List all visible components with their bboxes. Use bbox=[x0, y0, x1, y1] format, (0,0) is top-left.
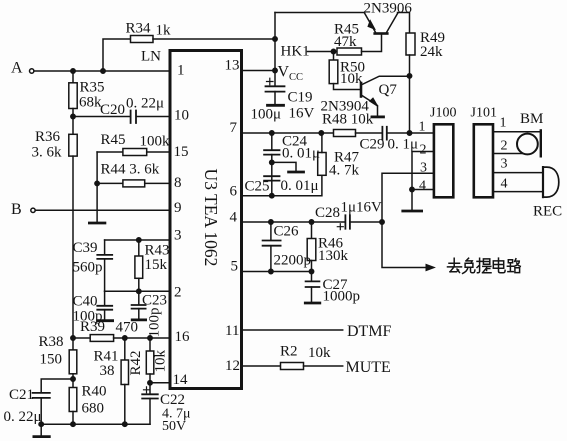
svg-text:9: 9 bbox=[174, 200, 182, 216]
node junction R43 bottom / C23 bbox=[137, 289, 141, 293]
svg-text:C21: C21 bbox=[9, 387, 34, 403]
resistor R50 10k bbox=[333, 52, 335, 61]
svg-text:C26: C26 bbox=[274, 224, 300, 240]
wire pin3 column up to J100 bbox=[382, 173, 434, 222]
ground at C24/C25 node bbox=[289, 171, 304, 174]
wire R45 to 2N3906 base bbox=[362, 35, 382, 52]
svg-text:1000p: 1000p bbox=[323, 289, 361, 305]
wire vertical LN/Vcc column bbox=[274, 13, 276, 87]
resistor R45 100k bbox=[123, 149, 147, 156]
svg-text:R48 10k: R48 10k bbox=[322, 112, 374, 128]
node junction R41 top bbox=[123, 336, 127, 340]
svg-text:2N3906: 2N3906 bbox=[364, 1, 413, 17]
node junction C26 top bbox=[269, 220, 273, 224]
svg-text:2: 2 bbox=[501, 139, 508, 154]
svg-text:7: 7 bbox=[230, 120, 238, 136]
svg-text:680: 680 bbox=[82, 401, 105, 417]
svg-text:150: 150 bbox=[40, 352, 63, 368]
svg-text:MUTE: MUTE bbox=[346, 359, 391, 376]
svg-text:2200p: 2200p bbox=[274, 253, 312, 269]
wire pin 12 to R2 bbox=[242, 365, 281, 367]
node junction C24 top bbox=[270, 131, 274, 135]
capacitor C28 1u16V plates bbox=[345, 215, 350, 228]
capacitor C19 plus sign bbox=[267, 78, 274, 85]
wire J101 pin3 to REC bbox=[493, 172, 543, 174]
svg-text:4: 4 bbox=[501, 177, 508, 192]
ground under C40 bbox=[98, 319, 113, 322]
node junction C26 bottom bbox=[269, 269, 273, 273]
svg-text:10k: 10k bbox=[308, 345, 331, 361]
wire pin 4 row bbox=[242, 221, 346, 223]
svg-text:1μ16V: 1μ16V bbox=[341, 200, 383, 216]
node junction R35-C20-R36 bbox=[71, 114, 75, 118]
svg-text:3. 6k: 3. 6k bbox=[32, 145, 63, 161]
node junction R46 bottom / C27 top bbox=[309, 269, 313, 273]
resistor R49 24k bbox=[406, 33, 415, 55]
wire pin 5 row bbox=[242, 271, 312, 273]
ground at Q7 emitter bbox=[372, 116, 384, 119]
svg-text:2: 2 bbox=[420, 143, 427, 158]
transistor Q7 2N3904 base bar bbox=[360, 83, 363, 97]
transistor Q 2N3906 base bar bbox=[375, 32, 388, 35]
svg-text:11: 11 bbox=[225, 323, 239, 339]
svg-text:5: 5 bbox=[231, 259, 239, 275]
svg-text:R42: R42 bbox=[128, 350, 144, 375]
wire pin 15 left segment bbox=[97, 151, 123, 153]
svg-text:13: 13 bbox=[225, 58, 240, 74]
node junction R38-R40-C21 bbox=[71, 377, 75, 381]
svg-text:J101: J101 bbox=[471, 106, 497, 121]
ground under C23 bbox=[132, 318, 145, 321]
transistor 2N3906 emitter with arrow bbox=[365, 13, 376, 32]
op-amp U3 TEA1062 IC body bbox=[170, 51, 242, 389]
capacitor C20 0.22u plates bbox=[131, 111, 136, 124]
svg-text:16V: 16V bbox=[289, 106, 315, 122]
node junction HK1-R45-R50 bbox=[331, 49, 335, 53]
svg-text:0. 1μ: 0. 1μ bbox=[388, 137, 419, 153]
node junction C25 bottom bbox=[270, 194, 274, 198]
capacitor C22 4.7u 50V plates bbox=[142, 394, 158, 398]
svg-text:100k: 100k bbox=[140, 134, 171, 150]
wire pin 2 bbox=[105, 290, 170, 292]
wire J100 pin4 stub bbox=[412, 189, 434, 191]
node junction J100 pin4-ground column bbox=[410, 187, 414, 191]
svg-text:R34: R34 bbox=[126, 21, 152, 37]
resistor R39 470 bbox=[90, 335, 113, 342]
resistor R44 3.6k bbox=[123, 180, 145, 187]
resistor R41 38 bbox=[124, 338, 126, 360]
wire 2N3906 collector to R49 top bbox=[398, 13, 410, 34]
transistor 2N3906 collector bbox=[387, 13, 398, 32]
svg-text:B: B bbox=[11, 201, 22, 218]
wire pin 13 to Vcc bbox=[242, 70, 276, 72]
wire bottom ground rail bbox=[41, 423, 150, 425]
wire B to pin 9 bbox=[35, 209, 170, 211]
svg-text:14: 14 bbox=[173, 372, 189, 388]
svg-text:50V: 50V bbox=[162, 419, 186, 434]
svg-text:0. 01μ: 0. 01μ bbox=[281, 178, 319, 194]
svg-text:CC: CC bbox=[289, 72, 303, 83]
svg-text:U3 TEA 1062: U3 TEA 1062 bbox=[201, 169, 221, 267]
label chinese qu mianti dianlu (to speakerphone circuit) bbox=[448, 258, 521, 273]
svg-text:C23: C23 bbox=[142, 293, 167, 309]
resistor R35 68k bbox=[72, 71, 74, 83]
wire C24/C25 node to ground stub bbox=[272, 162, 296, 171]
capacitor C28 plus sign bbox=[337, 224, 343, 230]
wire J100 pin2 stub bbox=[412, 152, 434, 190]
svg-text:1k: 1k bbox=[156, 23, 172, 39]
capacitor C27 1000p bbox=[311, 272, 313, 282]
svg-text:470: 470 bbox=[116, 320, 139, 336]
wire J101 pin2 to BM bbox=[493, 153, 522, 155]
resistor R34 1k bbox=[131, 36, 154, 43]
svg-text:15: 15 bbox=[174, 144, 189, 160]
svg-text:R2: R2 bbox=[280, 344, 298, 360]
svg-text:560p: 560p bbox=[73, 260, 103, 276]
wire pin 11 DTMF bbox=[242, 329, 343, 331]
svg-text:C25: C25 bbox=[245, 179, 270, 195]
node junction C29-R49 column bbox=[407, 131, 411, 135]
node junction C28-J100pin3 column bbox=[380, 220, 384, 224]
wire J101 pin1 to BM bbox=[493, 131, 540, 133]
wire pin 8 left segment bbox=[97, 182, 123, 184]
svg-text:V: V bbox=[278, 64, 290, 81]
capacitor C39 560p bbox=[104, 240, 106, 255]
terminal B bbox=[31, 208, 35, 212]
resistor R36 3.6k bbox=[72, 117, 74, 135]
capacitor C19 100u 16V plates bbox=[266, 86, 285, 91]
ground under C19 bbox=[268, 104, 284, 107]
svg-text:BM: BM bbox=[520, 111, 543, 127]
node junction Q7 collector-R49 bbox=[407, 74, 411, 78]
svg-text:2: 2 bbox=[174, 285, 182, 301]
svg-text:47k: 47k bbox=[334, 34, 357, 50]
resistor R38 150 bbox=[72, 338, 74, 350]
svg-text:R36: R36 bbox=[35, 129, 61, 145]
node junction R46 top bbox=[309, 220, 313, 224]
wire R45 to pin 15 bbox=[147, 151, 170, 153]
svg-text:1: 1 bbox=[500, 116, 507, 131]
node Vcc junction bbox=[273, 68, 277, 72]
svg-text:68k: 68k bbox=[79, 95, 102, 111]
capacitor C25 0.01u plates bbox=[264, 176, 279, 180]
svg-text:R38: R38 bbox=[39, 334, 64, 350]
svg-text:C20: C20 bbox=[100, 102, 125, 118]
resistor R48 10k bbox=[334, 130, 356, 137]
wire pin 3 bbox=[105, 239, 170, 241]
wire R39 left stub bbox=[73, 337, 90, 339]
wire R48 to C29 bbox=[356, 132, 383, 134]
svg-text:REC: REC bbox=[533, 204, 562, 220]
svg-text:C19: C19 bbox=[288, 90, 313, 106]
svg-text:0. 01μ: 0. 01μ bbox=[282, 146, 320, 162]
connector J101 body bbox=[474, 124, 493, 197]
wire A to pin 1 bbox=[34, 70, 170, 72]
capacitor C22 plus sign bbox=[144, 387, 150, 393]
svg-text:LN: LN bbox=[141, 49, 161, 65]
svg-text:C28: C28 bbox=[315, 205, 340, 221]
svg-text:0. 22μ: 0. 22μ bbox=[126, 96, 164, 112]
svg-text:C39: C39 bbox=[73, 240, 98, 256]
svg-text:4. 7k: 4. 7k bbox=[329, 163, 360, 179]
wire J100 ground stub bbox=[411, 190, 413, 211]
capacitor C24 0.01u bbox=[271, 133, 273, 150]
wire R34 to LN node bbox=[153, 38, 275, 40]
capacitor C21 0.22u plates bbox=[33, 393, 50, 398]
wire HK1 to R45 bbox=[308, 51, 338, 53]
node junction A-R35 bbox=[71, 69, 75, 73]
node junction R42-C22-pin14 bbox=[148, 381, 152, 385]
wire pin 7 row bbox=[242, 132, 334, 134]
wire R2 to MUTE bbox=[304, 365, 343, 367]
capacitor C29 0.1u plates bbox=[382, 127, 386, 140]
ground under R44 column bbox=[89, 222, 105, 225]
svg-text:R39: R39 bbox=[80, 319, 105, 335]
wire R44 to pin 8 bbox=[145, 182, 170, 184]
svg-text:12: 12 bbox=[225, 358, 240, 374]
svg-text:R40: R40 bbox=[82, 384, 107, 400]
node junction rail-C21 bbox=[39, 422, 43, 426]
svg-text:3: 3 bbox=[174, 228, 182, 244]
svg-text:C29: C29 bbox=[360, 137, 385, 153]
node junction rail-R41 bbox=[123, 422, 127, 426]
svg-text:10k: 10k bbox=[153, 350, 169, 373]
wire C20 left segment bbox=[73, 116, 130, 118]
svg-text:10: 10 bbox=[174, 108, 189, 124]
ground under J100 bbox=[403, 210, 422, 213]
wire R45/R44 ground column bbox=[96, 152, 98, 222]
connector J100 body bbox=[434, 124, 453, 197]
wire R34 branch vertical bbox=[103, 39, 131, 71]
wire J101 pin4 to REC bbox=[493, 191, 543, 193]
svg-text:4: 4 bbox=[419, 179, 426, 194]
svg-text:DTMF: DTMF bbox=[347, 323, 392, 340]
svg-text:100μ: 100μ bbox=[251, 107, 282, 123]
wire C20 to pin 10 bbox=[136, 116, 170, 118]
node junction rail-R39 bbox=[71, 336, 75, 340]
resistor R45 47k bbox=[337, 48, 362, 55]
capacitor C40 100p bbox=[104, 291, 106, 305]
node junction rail-R40 bbox=[71, 422, 75, 426]
svg-text:3: 3 bbox=[501, 157, 508, 172]
wire C21 branch bbox=[41, 379, 73, 393]
svg-text:Q7: Q7 bbox=[379, 82, 398, 98]
svg-text:38: 38 bbox=[100, 363, 115, 379]
wire R50 to Q7 base bbox=[334, 84, 361, 90]
svg-text:J100: J100 bbox=[430, 106, 456, 121]
wire C19 bottom stub bbox=[274, 92, 276, 105]
resistor R42 10k bbox=[149, 338, 151, 351]
svg-text:100p: 100p bbox=[147, 308, 163, 338]
transistor Q7 emitter with arrow bbox=[362, 96, 378, 117]
resistor R46 130k bbox=[311, 222, 313, 239]
wire left rail R36 down to R39 level bbox=[72, 156, 74, 338]
svg-text:3: 3 bbox=[420, 161, 427, 176]
ground under C27 bbox=[305, 302, 320, 305]
capacitor C23 100p bbox=[138, 291, 140, 304]
wire speakerphone branch with arrow bbox=[382, 222, 429, 268]
node junction R47 top bbox=[319, 131, 323, 135]
svg-text:1: 1 bbox=[419, 120, 426, 135]
receiver REC dome bbox=[542, 167, 544, 197]
wire top rail to 2N3906 emitter bbox=[275, 12, 365, 14]
svg-text:24k: 24k bbox=[420, 44, 443, 60]
wire C28 to J100 pin3 column bbox=[350, 221, 382, 223]
resistor R40 680 bbox=[72, 379, 74, 388]
svg-text:R45: R45 bbox=[101, 132, 126, 148]
svg-text:R35: R35 bbox=[80, 80, 105, 96]
wire pin 16 bbox=[114, 337, 170, 339]
ground bottom-left bbox=[40, 424, 42, 436]
node junction C24-C25 bbox=[270, 160, 274, 164]
node junction R43 top bbox=[137, 238, 141, 242]
wire R47 top to pin7 row bbox=[321, 133, 323, 153]
resistor R2 10k bbox=[281, 363, 304, 370]
svg-text:4: 4 bbox=[230, 210, 238, 226]
microphone BM circle bbox=[517, 134, 538, 155]
wire R49 to Q7 collector node bbox=[409, 55, 411, 133]
node junction A-R34 branch bbox=[101, 69, 105, 73]
svg-text:HK1: HK1 bbox=[281, 44, 310, 60]
resistor R43 15k bbox=[138, 240, 140, 256]
svg-text:C40: C40 bbox=[73, 294, 98, 310]
svg-text:6: 6 bbox=[230, 184, 238, 200]
wire C29 to J100 pin 1 bbox=[387, 132, 434, 134]
svg-text:15k: 15k bbox=[145, 257, 168, 273]
capacitor C26 2200p bbox=[270, 222, 272, 240]
microphone BM electrode bar bbox=[540, 130, 542, 156]
svg-text:0. 22μ: 0. 22μ bbox=[4, 409, 42, 425]
wire pin 14 bbox=[150, 382, 170, 384]
terminal A bbox=[30, 69, 34, 73]
node junction R34-Vcc vertical bbox=[273, 37, 277, 41]
resistor R47 4.7k bbox=[318, 153, 326, 176]
svg-text:1: 1 bbox=[177, 63, 185, 79]
svg-text:A: A bbox=[11, 60, 23, 77]
svg-text:10k: 10k bbox=[340, 71, 363, 87]
wire pin 6 row bbox=[242, 175, 322, 195]
svg-text:16: 16 bbox=[175, 329, 191, 345]
svg-text:8: 8 bbox=[174, 175, 182, 191]
svg-text:130k: 130k bbox=[318, 248, 349, 264]
node junction R44 left bbox=[95, 181, 99, 185]
svg-text:R44 3. 6k: R44 3. 6k bbox=[101, 162, 160, 178]
node junction R42 top bbox=[148, 336, 152, 340]
transistor Q7 collector bbox=[362, 76, 410, 84]
